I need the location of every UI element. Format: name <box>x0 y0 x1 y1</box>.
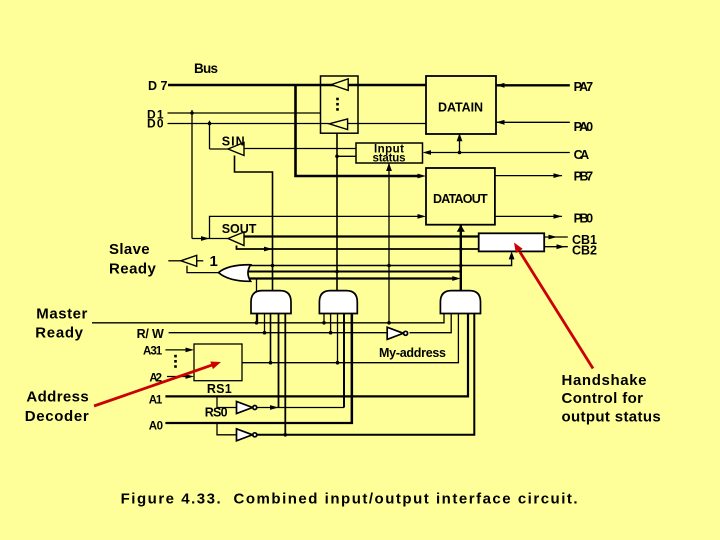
svg-text:Address: Address <box>26 389 88 406</box>
svg-text:SOUT: SOUT <box>222 222 257 236</box>
svg-text:My-address: My-address <box>379 346 446 360</box>
svg-text:status: status <box>373 152 406 164</box>
svg-text:Decoder: Decoder <box>25 408 89 425</box>
svg-text:Master: Master <box>36 305 87 322</box>
svg-text:Ready: Ready <box>35 325 83 342</box>
svg-text:SIN: SIN <box>222 134 245 148</box>
svg-text:Handshake: Handshake <box>562 372 647 389</box>
svg-text:CB2: CB2 <box>572 243 597 257</box>
svg-text:DATAOUT: DATAOUT <box>433 192 488 206</box>
svg-text:A0: A0 <box>149 420 163 432</box>
svg-text:Ready: Ready <box>109 261 156 278</box>
svg-text:Figure 4.33. Combined input/o: Figure 4.33. Combined input/output inter… <box>121 490 578 507</box>
svg-text:A31: A31 <box>143 346 163 358</box>
svg-text:D0: D0 <box>147 117 164 131</box>
svg-text:RS0: RS0 <box>205 406 228 420</box>
svg-text:DATAIN: DATAIN <box>438 101 483 115</box>
svg-text:PA0: PA0 <box>574 120 594 134</box>
svg-text:RS1: RS1 <box>207 382 232 396</box>
svg-text:Control for: Control for <box>562 390 644 407</box>
svg-text:A2: A2 <box>149 372 162 384</box>
svg-text:Slave: Slave <box>109 241 150 258</box>
svg-text:PA7: PA7 <box>574 80 594 94</box>
svg-text:A1: A1 <box>149 394 163 406</box>
svg-text:CA: CA <box>574 148 590 162</box>
svg-text:1: 1 <box>210 253 218 270</box>
svg-text:PB0: PB0 <box>574 211 594 225</box>
svg-text:Bus: Bus <box>194 61 218 76</box>
svg-text:R/ W: R/ W <box>137 327 164 341</box>
svg-text:PB7: PB7 <box>574 170 594 184</box>
svg-text:output status: output status <box>562 409 661 426</box>
